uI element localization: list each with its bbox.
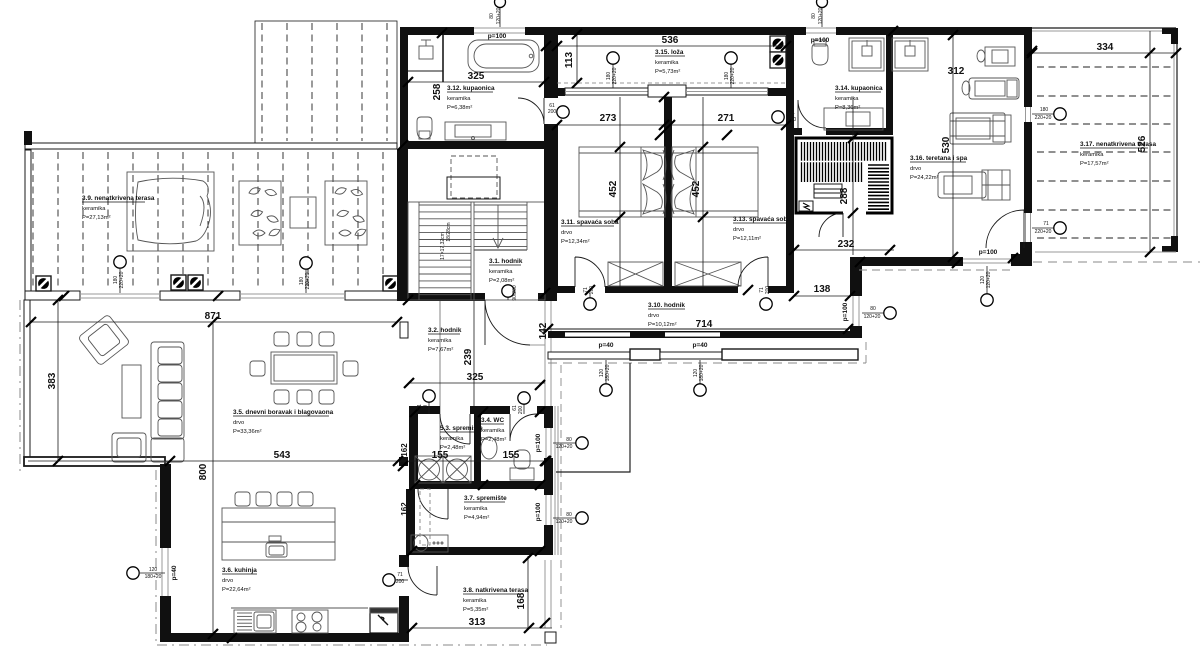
svg-text:P=10,12m²: P=10,12m²	[648, 322, 677, 328]
svg-text:162: 162	[400, 502, 409, 516]
svg-text:5.3. spremište: 5.3. spremište	[440, 425, 483, 432]
svg-text:220+20: 220+20	[612, 67, 618, 84]
dining table and chairs	[250, 332, 358, 404]
loggia 3.15 and bedroom walls	[544, 27, 794, 293]
bathroom 3.12 fixtures	[417, 40, 539, 140]
svg-text:keramika: keramika	[428, 338, 452, 344]
svg-text:200: 200	[788, 117, 797, 123]
svg-text:P=12,11m²: P=12,11m²	[733, 236, 761, 242]
svg-text:120+20: 120+20	[556, 444, 573, 450]
svg-text:200: 200	[396, 579, 405, 585]
svg-text:273: 273	[600, 113, 617, 124]
svg-text:80: 80	[489, 13, 495, 19]
svg-text:3.1. hodnik: 3.1. hodnik	[489, 258, 523, 265]
svg-text:142: 142	[538, 322, 549, 339]
living room outer walls	[24, 300, 408, 642]
svg-text:288: 288	[839, 187, 850, 204]
room labels	[82, 195, 155, 221]
svg-text:keramika: keramika	[655, 60, 679, 66]
svg-text:180+20: 180+20	[699, 364, 705, 381]
svg-text:325: 325	[468, 71, 485, 82]
kitchen east wall	[399, 457, 409, 642]
roof overhang hatch top-left	[255, 21, 397, 143]
svg-text:452: 452	[691, 180, 702, 197]
svg-text:keramika: keramika	[1080, 152, 1104, 158]
svg-text:155: 155	[503, 450, 520, 461]
svg-text:71: 71	[1043, 221, 1049, 227]
svg-text:200: 200	[518, 406, 524, 415]
doors	[408, 98, 1024, 595]
kitchen island	[222, 492, 335, 560]
svg-text:P=4,94m²: P=4,94m²	[464, 515, 489, 521]
terrace big table	[127, 172, 214, 251]
svg-text:p=100: p=100	[535, 433, 542, 452]
svg-text:113: 113	[564, 51, 575, 68]
svg-text:312: 312	[948, 66, 965, 77]
svg-text:3.10. hodnik: 3.10. hodnik	[648, 302, 685, 309]
svg-text:220+20: 220+20	[1035, 115, 1052, 121]
svg-text:3.9. nenatkrivena terasa: 3.9. nenatkrivena terasa	[82, 195, 155, 202]
svg-text:p=100: p=100	[488, 33, 507, 40]
svg-text:3.12. kupaonica: 3.12. kupaonica	[447, 85, 495, 92]
svg-text:120+20: 120+20	[496, 7, 502, 24]
svg-text:p=100: p=100	[842, 302, 849, 321]
svg-text:P=12,34m²: P=12,34m²	[561, 239, 590, 245]
svg-text:325: 325	[467, 372, 484, 383]
property line	[156, 470, 547, 645]
drain symbols terrace	[36, 276, 51, 291]
svg-text:80: 80	[811, 13, 817, 19]
svg-text:334: 334	[1097, 42, 1114, 53]
svg-text:3.6. kuhinja: 3.6. kuhinja	[222, 567, 257, 574]
svg-text:162: 162	[400, 443, 409, 457]
rooms 5.3 / 3.4 / 3.7 walls	[406, 406, 553, 555]
sauna	[796, 138, 892, 215]
svg-text:drvo: drvo	[561, 230, 572, 236]
svg-text:200: 200	[548, 109, 557, 115]
svg-text:120+20: 120+20	[986, 271, 992, 288]
svg-text:drvo: drvo	[733, 227, 744, 233]
svg-text:3.13. spavaća soba: 3.13. spavaća soba	[733, 216, 791, 223]
svg-text:271: 271	[718, 113, 735, 124]
svg-text:120+20: 120+20	[556, 519, 573, 525]
svg-text:90/200: 90/200	[512, 285, 518, 301]
svg-text:180+20: 180+20	[145, 574, 162, 580]
gym equipment	[938, 47, 1019, 200]
svg-text:P=5,35m²: P=5,35m²	[463, 607, 488, 613]
svg-text:keramika: keramika	[464, 506, 488, 512]
svg-text:239: 239	[463, 348, 474, 365]
svg-text:p=100: p=100	[535, 502, 542, 521]
svg-text:p=40: p=40	[599, 342, 614, 349]
svg-text:313: 313	[469, 617, 486, 628]
terrace 3.9 hatch	[33, 152, 383, 289]
svg-text:200: 200	[589, 286, 595, 295]
corridor east wall	[850, 257, 862, 338]
svg-text:3.16. teretana i spa: 3.16. teretana i spa	[910, 155, 968, 162]
svg-text:keramika: keramika	[463, 598, 487, 604]
svg-text:155: 155	[432, 450, 449, 461]
svg-text:3.15. loža: 3.15. loža	[655, 49, 684, 56]
svg-text:180+20: 180+20	[605, 364, 611, 381]
svg-text:keramika: keramika	[447, 96, 471, 102]
svg-text:3.11. spavaća soba: 3.11. spavaća soba	[561, 219, 619, 226]
svg-text:P=6,38m²: P=6,38m²	[447, 105, 472, 111]
svg-text:138: 138	[814, 284, 831, 295]
svg-text:P=27,13m²: P=27,13m²	[82, 215, 111, 221]
svg-text:3.7. spremište: 3.7. spremište	[464, 495, 507, 502]
svg-text:80: 80	[566, 512, 572, 518]
staircase	[408, 202, 545, 300]
svg-text:714: 714	[696, 319, 713, 330]
terrace 3.8 boundary	[412, 560, 556, 643]
svg-text:800: 800	[198, 463, 209, 480]
svg-text:200: 200	[423, 405, 429, 414]
svg-text:3.4. WC: 3.4. WC	[481, 417, 504, 424]
svg-text:232: 232	[838, 239, 855, 250]
svg-text:keramika: keramika	[489, 269, 513, 275]
beds bedrooms	[579, 147, 666, 217]
svg-text:80: 80	[566, 437, 572, 443]
svg-text:383: 383	[47, 372, 58, 389]
svg-text:61: 61	[789, 110, 795, 116]
svg-text:3.5. dnevni boravak i blagovao: 3.5. dnevni boravak i blagovaona	[233, 409, 334, 416]
svg-text:keramika: keramika	[835, 96, 859, 102]
svg-text:543: 543	[274, 450, 291, 461]
bathroom 3.14 / gym 3.16 walls	[794, 27, 1032, 270]
svg-text:530: 530	[941, 136, 952, 153]
svg-text:220+20: 220+20	[305, 272, 311, 289]
3.7 fixtures	[411, 535, 448, 552]
WC 3.4 fixtures	[481, 437, 534, 480]
svg-text:P=2,08m²: P=2,08m²	[489, 278, 514, 284]
corridor 3.10 south walls/windows	[548, 331, 866, 363]
terrace 3.9 boundary walls	[24, 131, 400, 300]
svg-text:keramika: keramika	[481, 428, 505, 434]
svg-text:120: 120	[149, 567, 158, 573]
svg-text:71: 71	[397, 572, 403, 578]
svg-text:3.14. kupaonica: 3.14. kupaonica	[835, 85, 883, 92]
svg-text:P=17,57m²: P=17,57m²	[1080, 161, 1109, 167]
svg-text:P=7,67m²: P=7,67m²	[428, 347, 453, 353]
svg-text:drvo: drvo	[222, 578, 233, 584]
stair landing dashed	[451, 156, 497, 198]
svg-text:120+20: 120+20	[864, 314, 881, 320]
svg-text:P=22,64m²: P=22,64m²	[222, 587, 251, 593]
svg-text:p=40: p=40	[693, 342, 708, 349]
svg-text:drvo: drvo	[648, 313, 659, 319]
svg-text:168: 168	[516, 592, 527, 609]
svg-text:3.8. natkrivena terasa: 3.8. natkrivena terasa	[463, 587, 528, 594]
bathroom 3.14 fixtures	[812, 38, 928, 130]
stairwell walls	[397, 149, 557, 301]
svg-text:3.17. nenatkrivena terasa: 3.17. nenatkrivena terasa	[1080, 141, 1156, 148]
svg-text:220+20: 220+20	[119, 271, 125, 288]
svg-text:871: 871	[205, 311, 222, 322]
svg-text:3.2. hodnik: 3.2. hodnik	[428, 327, 462, 334]
svg-text:220+20: 220+20	[1035, 229, 1052, 235]
terrace sofas	[239, 181, 367, 245]
svg-text:452: 452	[608, 180, 619, 197]
kitchen counter bottom	[231, 608, 398, 633]
washing machines 5.3	[415, 456, 471, 483]
svg-text:p=40: p=40	[171, 565, 178, 580]
svg-text:536: 536	[662, 35, 679, 46]
svg-text:P=2,48m²: P=2,48m²	[481, 437, 506, 443]
svg-text:keramika: keramika	[82, 206, 106, 212]
svg-text:P=33,36m²: P=33,36m²	[233, 429, 262, 435]
wardrobes	[608, 262, 741, 286]
terrace 3.17 hatch	[1037, 67, 1172, 238]
svg-text:drvo: drvo	[233, 420, 244, 426]
svg-text:200: 200	[765, 286, 771, 295]
svg-text:keramika: keramika	[440, 436, 464, 442]
svg-text:P=24,22m²: P=24,22m²	[910, 175, 939, 181]
svg-text:220+20: 220+20	[730, 67, 736, 84]
svg-text:18/28cm: 18/28cm	[446, 222, 452, 241]
svg-text:p=100: p=100	[979, 249, 998, 256]
living sofa group	[78, 314, 184, 462]
bathroom 3.12 walls	[400, 27, 557, 293]
svg-text:p=100: p=100	[811, 37, 830, 44]
svg-text:80: 80	[870, 306, 876, 312]
terrace 3.17 boundary	[1032, 28, 1200, 262]
svg-text:180: 180	[1040, 107, 1049, 113]
svg-text:120+20: 120+20	[818, 7, 824, 24]
svg-text:258: 258	[432, 83, 443, 100]
svg-text:P=2,48m²: P=2,48m²	[440, 445, 465, 451]
corridor 3.2 east glazing	[400, 301, 551, 460]
svg-text:P=8,36m²: P=8,36m²	[835, 105, 860, 111]
window/door balloons	[113, 0, 1066, 586]
svg-text:P=5,73m²: P=5,73m²	[655, 69, 680, 75]
slab edge line	[556, 363, 630, 472]
svg-text:drvo: drvo	[910, 166, 921, 172]
